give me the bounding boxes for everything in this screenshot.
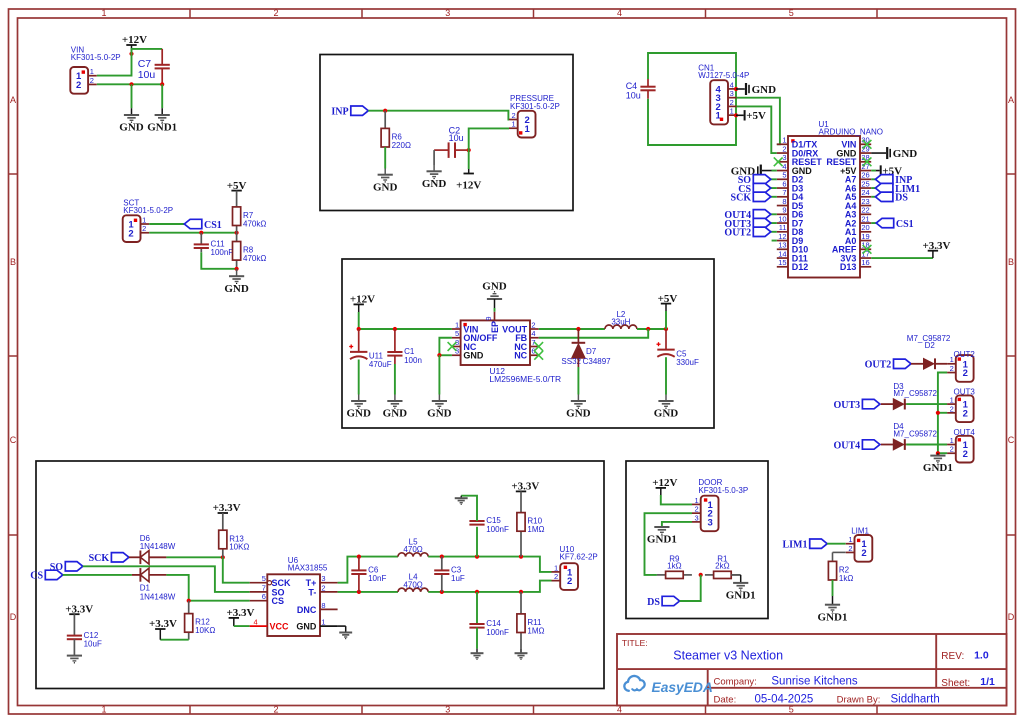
svg-text:2: 2 xyxy=(76,80,81,91)
wire C15 up xyxy=(476,527,478,557)
svg-text:2: 2 xyxy=(531,320,535,329)
wire SO to U1 xyxy=(771,178,777,180)
svg-text:10nF: 10nF xyxy=(368,574,386,583)
svg-text:+5V: +5V xyxy=(746,110,766,122)
svg-text:GND: GND xyxy=(463,351,484,361)
svg-text:+12V: +12V xyxy=(456,179,481,191)
svg-text:5: 5 xyxy=(789,8,794,18)
wire D6 to R13/SCK xyxy=(166,556,222,558)
connector PRESSURE xyxy=(509,94,560,137)
power flag +3.3V (VCC) xyxy=(227,607,255,619)
svg-text:NC: NC xyxy=(514,351,527,361)
svg-text:2: 2 xyxy=(782,144,786,153)
svg-text:1: 1 xyxy=(512,120,516,129)
power flag +5V (U1 pin27) xyxy=(881,165,902,177)
svg-text:05-04-2025: 05-04-2025 xyxy=(755,693,814,705)
port LIM1 (U1) xyxy=(875,183,920,195)
svg-text:SCK: SCK xyxy=(731,193,752,204)
svg-text:1kΩ: 1kΩ xyxy=(667,562,681,571)
resistor R11 xyxy=(517,592,545,649)
resistor R7 xyxy=(233,207,267,233)
wire gnd1 stem xyxy=(937,453,939,455)
svg-text:EasyEDA: EasyEDA xyxy=(652,680,713,695)
svg-text:SCK: SCK xyxy=(89,553,110,564)
junction C6 bot xyxy=(357,590,361,594)
svg-text:100nF: 100nF xyxy=(211,248,234,257)
power flag +3.3V (R13) xyxy=(213,502,241,514)
svg-text:GND: GND xyxy=(427,408,452,420)
svg-text:470uF: 470uF xyxy=(369,360,392,369)
junction R9/R1/DS xyxy=(699,573,703,577)
resistor R12 xyxy=(185,601,216,640)
connector U10 xyxy=(552,545,598,590)
resistor R10 xyxy=(517,513,545,557)
svg-text:GND: GND xyxy=(752,84,777,96)
svg-text:DS: DS xyxy=(895,193,908,204)
wire gnd1 stem xyxy=(661,525,663,527)
wire D7 anode xyxy=(577,358,579,367)
svg-text:ARDUINO_NANO: ARDUINO_NANO xyxy=(819,128,883,137)
svg-text:GND: GND xyxy=(224,283,249,295)
svg-text:C34897: C34897 xyxy=(583,357,612,366)
wire PRESSURE pin1 down xyxy=(469,128,509,169)
wire DOOR pin3 xyxy=(662,522,692,527)
svg-text:A: A xyxy=(10,95,16,105)
svg-text:B: B xyxy=(1008,257,1014,267)
no-connect U1 pin3 xyxy=(774,157,783,166)
junction C6 top xyxy=(357,555,361,559)
svg-text:1MΩ: 1MΩ xyxy=(527,626,544,635)
svg-text:+5V: +5V xyxy=(658,293,678,305)
wire VIN pin1 to +12V/C7 xyxy=(97,49,162,76)
diode D4 xyxy=(881,439,907,450)
svg-text:GND: GND xyxy=(893,148,918,160)
wire R1 to gnd1 xyxy=(731,574,741,576)
svg-text:Siddharth: Siddharth xyxy=(891,693,940,705)
wire C12 gnd xyxy=(73,639,75,655)
port SO (U1) xyxy=(738,175,771,187)
svg-text:4: 4 xyxy=(782,162,786,171)
junction CN1 pin4/GND xyxy=(734,87,738,91)
port OUT4 (U1) xyxy=(724,210,770,222)
wire gnd1 stem xyxy=(161,108,163,115)
junction pin2/GND xyxy=(129,82,133,86)
svg-text:CS: CS xyxy=(272,596,285,606)
svg-text:+3.3V: +3.3V xyxy=(65,603,93,615)
wire C1 to GND xyxy=(394,364,396,395)
ground GND (EP) xyxy=(482,281,507,299)
svg-text:OUT2: OUT2 xyxy=(724,228,751,239)
svg-text:23: 23 xyxy=(861,197,869,206)
wire +12V to DOOR pin1 xyxy=(661,495,692,504)
wire +5V down xyxy=(665,311,667,329)
svg-text:GND: GND xyxy=(373,181,398,193)
wire VCC xyxy=(234,625,250,627)
svg-text:10u: 10u xyxy=(138,69,156,81)
wire CN1 pin1 +5v xyxy=(736,114,744,116)
ground (R11) xyxy=(515,653,528,659)
svg-text:1: 1 xyxy=(554,563,558,572)
port CS1 (U1) xyxy=(876,218,913,230)
svg-text:3: 3 xyxy=(730,89,734,98)
power flag +3.3V (R10) xyxy=(511,481,539,493)
ground GND (U12) xyxy=(427,401,452,420)
svg-text:OUT3: OUT3 xyxy=(834,400,861,411)
svg-text:22: 22 xyxy=(861,206,869,215)
wire VIN pin2 rail xyxy=(97,83,162,85)
svg-text:470kΩ: 470kΩ xyxy=(243,219,266,228)
resistor R13 xyxy=(219,530,250,557)
junction +12V flag attach xyxy=(129,52,133,56)
svg-text:13: 13 xyxy=(778,241,786,250)
svg-text:OUT2: OUT2 xyxy=(865,360,892,371)
svg-text:D13: D13 xyxy=(840,262,857,272)
ground flag GND (CN1) xyxy=(746,83,776,96)
junction R10 tap xyxy=(519,555,523,559)
svg-text:7: 7 xyxy=(782,188,786,197)
svg-text:+3.3V: +3.3V xyxy=(213,502,241,514)
port LIM1 (conn) xyxy=(783,539,828,551)
capacitor C5 xyxy=(657,342,699,367)
svg-text:100nF: 100nF xyxy=(486,525,509,534)
svg-text:+3.3V: +3.3V xyxy=(923,240,951,252)
svg-text:MAX31855: MAX31855 xyxy=(288,564,328,573)
wire SCT pin1 to CS1 xyxy=(149,223,184,225)
wire SCK to U1 xyxy=(771,196,777,198)
junction +5V/C5 node xyxy=(664,327,668,331)
power flag +3.3V (R12) xyxy=(149,618,177,630)
svg-text:3: 3 xyxy=(695,513,699,522)
svg-text:DNC: DNC xyxy=(297,605,317,615)
svg-text:2: 2 xyxy=(950,404,954,413)
power flag +12V (DOOR) xyxy=(652,477,677,489)
svg-text:GND: GND xyxy=(346,408,371,420)
wire C14 down xyxy=(476,592,478,624)
wire DS up xyxy=(680,575,701,601)
wire D7 to GND xyxy=(577,367,579,395)
svg-text:2: 2 xyxy=(950,364,954,373)
svg-text:DS: DS xyxy=(647,597,660,608)
port OUT4 (conn) xyxy=(834,440,880,452)
wire rail top xyxy=(428,557,551,572)
ground (C15) xyxy=(455,498,468,504)
svg-text:+3.3V: +3.3V xyxy=(227,607,255,619)
junction C1 tap xyxy=(393,327,397,331)
capacitor C14 xyxy=(469,619,509,637)
wire U1 pin4 gnd xyxy=(762,170,772,172)
junction pin2/C7/GND1 xyxy=(160,82,164,86)
port OUT2 (conn) xyxy=(865,359,911,371)
wire OUT3 pin2 xyxy=(938,412,947,414)
svg-text:1: 1 xyxy=(695,496,699,505)
svg-text:1: 1 xyxy=(90,67,94,76)
svg-text:2: 2 xyxy=(128,228,133,239)
svg-text:D1: D1 xyxy=(140,584,151,593)
wire OUT3 to U1 xyxy=(771,222,777,224)
diode D6 xyxy=(129,551,167,565)
resistor R9 xyxy=(657,555,692,579)
svg-text:TITLE:: TITLE: xyxy=(622,638,648,648)
svg-text:+3.3V: +3.3V xyxy=(511,481,539,493)
junction D6/R13 xyxy=(221,555,225,559)
svg-text:10KΩ: 10KΩ xyxy=(195,626,215,635)
wire U12 gnd down xyxy=(438,355,440,394)
wire U1 CS1 xyxy=(871,222,876,224)
ground GND1 (VIN) xyxy=(147,115,177,134)
inductor L5 xyxy=(398,537,428,556)
svg-text:EP: EP xyxy=(490,321,500,333)
svg-text:4: 4 xyxy=(730,80,734,89)
svg-text:1: 1 xyxy=(101,704,106,714)
svg-text:470Ω: 470Ω xyxy=(403,581,422,590)
svg-text:2: 2 xyxy=(963,449,968,460)
wire +12V to U12 VIN xyxy=(359,312,452,329)
wire gnd stem xyxy=(358,395,360,401)
svg-text:2: 2 xyxy=(695,505,699,514)
junction +12V node xyxy=(357,327,361,331)
connector CN1 xyxy=(698,63,749,124)
wire CN1 pin2 to U1 D0/RX xyxy=(737,106,777,153)
ground flag GND (U1 pin29) xyxy=(887,147,917,160)
wire LIM1 pin2 xyxy=(833,551,846,553)
svg-text:C4: C4 xyxy=(626,81,638,91)
wire VCC stem xyxy=(233,618,235,626)
wire to GND xyxy=(131,84,133,108)
IC U12 LM2596ME-5.0/TR xyxy=(452,312,561,384)
wire gnd stem xyxy=(665,395,667,401)
svg-text:2: 2 xyxy=(512,111,516,120)
no-connect U12 pin7 xyxy=(534,342,543,351)
svg-text:9: 9 xyxy=(484,317,493,321)
svg-text:D2: D2 xyxy=(925,341,936,350)
port SCK (U1) xyxy=(731,192,771,204)
svg-text:GND1: GND1 xyxy=(647,534,677,546)
wire D7 lead xyxy=(577,329,579,343)
wire rail bottom xyxy=(428,581,551,592)
svg-text:+12V: +12V xyxy=(652,477,677,489)
junction bus/OUT3 pin2 xyxy=(936,411,940,415)
svg-text:2: 2 xyxy=(142,224,146,233)
svg-text:4: 4 xyxy=(254,618,258,627)
power flag +12V (LM2596) xyxy=(350,294,375,306)
svg-text:WJ127-5.0-4P: WJ127-5.0-4P xyxy=(698,71,749,80)
wire gnd1 stem xyxy=(832,596,834,605)
junction R8/GND node xyxy=(235,267,239,271)
wire gnd stem xyxy=(476,649,478,653)
wire C14 to gnd xyxy=(476,628,478,649)
no-connect U1 pin28 xyxy=(863,157,872,166)
capacitor C2 xyxy=(434,125,469,158)
svg-text:Sunrise Kitchens: Sunrise Kitchens xyxy=(771,676,858,688)
svg-text:C: C xyxy=(1008,435,1015,445)
junction ON-OFF/GND xyxy=(437,353,441,357)
power flag +3.3V (C12) xyxy=(65,603,93,615)
resistor R6 xyxy=(381,128,411,150)
wire R2 to gnd1 xyxy=(832,580,834,596)
svg-text:4: 4 xyxy=(617,8,622,18)
port SCK (max) xyxy=(89,553,129,565)
svg-text:INP: INP xyxy=(331,107,348,118)
svg-text:OUT4: OUT4 xyxy=(834,440,861,451)
svg-text:KF7.62-2P: KF7.62-2P xyxy=(560,553,598,562)
svg-text:D12: D12 xyxy=(792,262,809,272)
junction CS/R12 xyxy=(187,599,191,603)
svg-text:3: 3 xyxy=(708,517,713,528)
wire C11 to gnd node xyxy=(201,252,236,269)
power flag +12V net xyxy=(122,34,147,46)
svg-text:1: 1 xyxy=(848,535,852,544)
svg-text:1uF: 1uF xyxy=(451,574,465,583)
wire to GND1 xyxy=(161,84,163,108)
diode D7 xyxy=(572,343,586,359)
svg-text:M7_C95872: M7_C95872 xyxy=(893,429,937,438)
wire +5V stem xyxy=(665,304,667,311)
junction CN1 pin1/+5V xyxy=(734,113,738,117)
sub-circuit box LM2596 xyxy=(342,259,714,428)
ground GND (D7) xyxy=(566,401,591,420)
svg-text:Company:: Company: xyxy=(714,677,757,688)
no-connect U1 pin30 xyxy=(863,140,872,149)
wire gnd stem xyxy=(460,496,462,498)
svg-text:+12V: +12V xyxy=(122,34,147,46)
svg-text:6: 6 xyxy=(782,179,786,188)
junction D7 tap xyxy=(576,327,580,331)
EasyEDA logo xyxy=(624,676,713,695)
ground GND (VIN) xyxy=(119,115,144,134)
wire U1 pin27 +5v xyxy=(871,170,876,172)
ground GND (U11) xyxy=(346,401,371,420)
wire stub U1 pin12 xyxy=(772,240,777,242)
svg-text:OUT4: OUT4 xyxy=(954,428,976,437)
diode D2 xyxy=(911,358,947,369)
capacitor C12 xyxy=(67,631,102,649)
wire gnd stem xyxy=(438,395,440,401)
sub-circuit box MAX31855 xyxy=(36,461,604,689)
resistor R2 xyxy=(828,561,853,583)
ground GND (SCT) xyxy=(224,276,249,295)
wire SCK to U6 xyxy=(223,557,250,582)
svg-text:Steamer v3 Nextion: Steamer v3 Nextion xyxy=(673,648,783,662)
wire T- to rail xyxy=(338,591,398,593)
diode D1 xyxy=(132,568,167,582)
connector SCT xyxy=(123,198,173,242)
svg-text:2: 2 xyxy=(848,544,852,553)
port SO (max) xyxy=(50,562,83,574)
port OUT3 (conn) xyxy=(834,399,880,411)
svg-text:6: 6 xyxy=(262,592,266,601)
wire L2 to +5V/C5 xyxy=(637,328,666,330)
wire CS to U1 xyxy=(771,187,777,189)
capacitor C15 xyxy=(469,516,509,534)
svg-text:CS1: CS1 xyxy=(204,220,222,231)
svg-text:5: 5 xyxy=(782,171,786,180)
svg-text:2: 2 xyxy=(90,76,94,85)
svg-text:1kΩ: 1kΩ xyxy=(839,574,853,583)
svg-text:1: 1 xyxy=(782,136,786,145)
svg-text:2kΩ: 2kΩ xyxy=(715,562,729,571)
wire R12 to +3.3V xyxy=(160,639,188,641)
no-connect U12 pin6 xyxy=(534,351,543,360)
wire D1 to CS/R12 xyxy=(166,575,249,601)
svg-text:10u: 10u xyxy=(449,133,464,143)
svg-text:REV:: REV: xyxy=(941,651,964,662)
wire +12V stem xyxy=(660,488,662,495)
svg-text:19: 19 xyxy=(861,232,869,241)
svg-text:20: 20 xyxy=(861,223,869,232)
wire T+ to rail xyxy=(338,557,398,583)
svg-text:1.0: 1.0 xyxy=(974,650,989,662)
title block xyxy=(617,634,1007,706)
capacitor C1 xyxy=(387,329,422,365)
svg-text:10KΩ: 10KΩ xyxy=(229,543,249,552)
ground (C14) xyxy=(471,653,484,659)
svg-text:8: 8 xyxy=(782,197,786,206)
wire U1 DS xyxy=(871,196,875,198)
wire OUT4 to U1 xyxy=(771,213,777,215)
svg-text:C: C xyxy=(10,435,17,445)
svg-text:330uF: 330uF xyxy=(676,358,699,367)
wire DOOR pin2 xyxy=(645,513,693,575)
wire R6 top lead xyxy=(384,111,386,129)
junction C2/+12V node xyxy=(467,148,471,152)
wire ON/OFF to GND pin xyxy=(439,338,452,356)
diode D3 xyxy=(881,399,907,410)
port CS (max) xyxy=(30,570,62,582)
svg-text:21: 21 xyxy=(861,214,869,223)
svg-text:3: 3 xyxy=(321,574,325,583)
junction C15 tap xyxy=(475,555,479,559)
svg-text:1: 1 xyxy=(321,618,325,627)
svg-text:2: 2 xyxy=(273,704,278,714)
svg-text:2: 2 xyxy=(273,8,278,18)
svg-text:16: 16 xyxy=(861,258,869,267)
svg-text:GND: GND xyxy=(566,408,591,420)
svg-text:7: 7 xyxy=(262,583,266,592)
wire U11 to GND xyxy=(358,360,360,395)
svg-text:CS1: CS1 xyxy=(896,219,914,230)
junction C3 bot xyxy=(440,590,444,594)
svg-text:24: 24 xyxy=(861,188,869,197)
svg-text:GND: GND xyxy=(296,622,317,632)
svg-text:GND: GND xyxy=(119,122,144,134)
junction FB node xyxy=(646,327,650,331)
wire U6 gnd xyxy=(338,625,346,627)
port INP (U1) xyxy=(875,175,912,187)
svg-text:OUT2: OUT2 xyxy=(954,350,976,359)
svg-text:GND: GND xyxy=(383,408,408,420)
ground GND1 (R1) xyxy=(726,583,756,602)
svg-text:1: 1 xyxy=(455,320,459,329)
svg-text:1N4148W: 1N4148W xyxy=(140,542,176,551)
sub-circuit box DOOR xyxy=(626,461,768,619)
capacitor C7 xyxy=(138,49,170,84)
svg-text:Date:: Date: xyxy=(714,695,737,706)
no-connect U12 pin8 xyxy=(448,342,457,351)
svg-text:GND: GND xyxy=(422,178,447,190)
wire gnd stem xyxy=(236,269,238,276)
svg-text:GND: GND xyxy=(482,281,507,293)
svg-text:33uH: 33uH xyxy=(611,318,630,327)
wire R10 stem xyxy=(520,491,522,512)
wire SO to U6 xyxy=(83,566,250,592)
capacitor C4 xyxy=(626,79,656,101)
wire VOUT to L2 xyxy=(539,328,605,330)
svg-text:LIM1: LIM1 xyxy=(783,540,808,551)
svg-text:25: 25 xyxy=(861,179,869,188)
svg-text:26: 26 xyxy=(861,171,869,180)
svg-text:1: 1 xyxy=(525,124,531,135)
svg-text:T-: T- xyxy=(308,587,316,597)
